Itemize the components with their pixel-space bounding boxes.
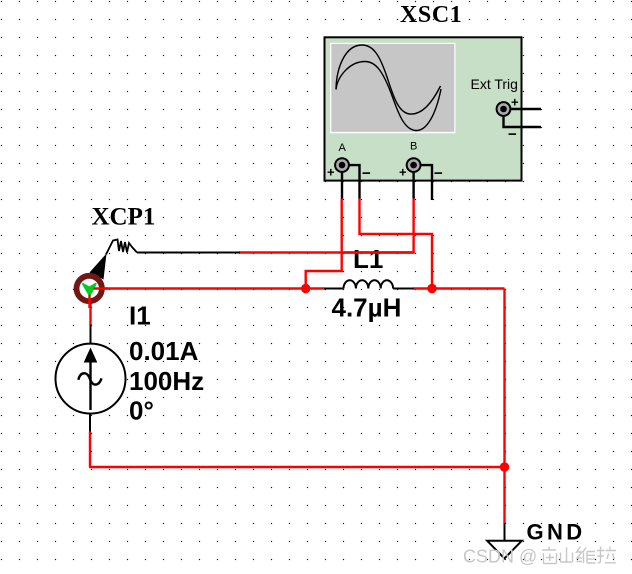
inductor L1 coil — [324, 280, 414, 288]
pin - (Ext Trig) — [508, 126, 517, 143]
wire B+ net over L1 label (red) — [344, 251, 414, 253]
pin + (A) — [327, 165, 335, 180]
junction node L1.2 — [427, 284, 436, 293]
svg-text:0.01A: 0.01A — [129, 336, 199, 366]
value 4.7uH — [332, 293, 402, 323]
terminal Ext Trig pin stubs — [504, 109, 542, 127]
wire scope B+ to XCP1 output (red) — [239, 199, 414, 253]
wire XCP1 output black segment — [137, 252, 240, 254]
wire GND drop (red) — [503, 467, 505, 524]
svg-text:CSDN @: CSDN @ — [463, 547, 537, 567]
wire scope A+ to L1.1 (red) — [306, 199, 342, 289]
svg-text:−: − — [362, 165, 371, 182]
wire net I1.top to XCP1 ring (red vertical) — [89, 289, 91, 326]
svg-text:4.7µH: 4.7µH — [332, 293, 402, 323]
terminal A — [335, 158, 349, 172]
label B — [410, 141, 417, 153]
scope trace curve 1 (upper) — [336, 45, 441, 114]
terminal B pin stubs — [414, 165, 432, 200]
label I1 — [129, 300, 151, 330]
value 0.01A — [129, 336, 199, 366]
value 100Hz — [129, 366, 204, 396]
junction node L1.1 — [301, 284, 310, 293]
label Ext Trig — [471, 76, 518, 92]
junction node bottom-right — [500, 462, 509, 471]
svg-text:A: A — [339, 142, 347, 154]
svg-text:+: + — [511, 95, 519, 110]
svg-text:+: + — [399, 165, 407, 180]
watermark CSDN @nanshanweila — [463, 547, 616, 567]
label GND — [527, 520, 586, 545]
wire over probe ring (red) — [90, 289, 109, 309]
pin - (A) — [362, 165, 371, 182]
current source I1 — [56, 325, 126, 432]
oscilloscope XSC1 body — [325, 37, 522, 180]
svg-text:0°: 0° — [129, 396, 154, 426]
svg-text:L1: L1 — [353, 244, 383, 274]
label A — [339, 142, 347, 154]
label XSC1 — [400, 2, 462, 28]
wire XCP1 node to L1.1 (red horizontal) — [89, 287, 324, 289]
value 0deg — [129, 396, 154, 426]
wire scope A- to L1.2 (red) — [360, 199, 433, 289]
label L1 — [353, 244, 383, 274]
svg-text:Ext Trig: Ext Trig — [471, 76, 518, 92]
svg-text:B: B — [410, 141, 417, 153]
wire right vertical to bottom junction — [503, 289, 505, 468]
svg-text:XCP1: XCP1 — [92, 204, 156, 231]
wire left vertical bottom to I1.bottom — [89, 432, 91, 467]
svg-text:+: + — [327, 165, 335, 180]
terminal Ext Trig — [497, 102, 511, 116]
pin - (B) — [434, 165, 443, 182]
wire bottom horizontal — [89, 466, 505, 468]
svg-text:GND: GND — [527, 520, 586, 545]
ground GND — [487, 523, 522, 559]
terminal A pin stubs — [342, 165, 360, 198]
svg-text:100Hz: 100Hz — [129, 366, 204, 396]
pin + (B) — [399, 165, 407, 180]
label XCP1 — [92, 204, 156, 231]
svg-text:I1: I1 — [129, 300, 151, 330]
wire L1.2 to right corner (red horizontal) — [413, 287, 505, 289]
svg-text:−: − — [508, 126, 517, 143]
svg-text:−: − — [434, 165, 443, 182]
scope trace curve 2 (lower) — [336, 62, 441, 131]
terminal B — [407, 158, 421, 172]
svg-text:XSC1: XSC1 — [400, 2, 462, 28]
current probe XCP1 — [77, 240, 138, 302]
pin + (Ext Trig) — [511, 95, 519, 110]
